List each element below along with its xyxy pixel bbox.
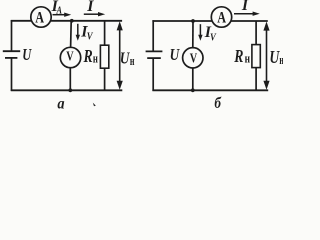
source U plate top (b) <box>146 50 163 52</box>
svg-text:V: V <box>190 52 197 67</box>
voltmeter V1 (a) <box>60 47 80 67</box>
svg-text:н: н <box>245 51 251 66</box>
label R_n (b) <box>234 46 251 66</box>
wire: resistor branch upper (a) <box>104 21 106 45</box>
wire: top rail (a) <box>11 20 122 22</box>
svg-text:R: R <box>234 46 244 66</box>
voltage arrow U_n double-headed (b) <box>263 22 269 90</box>
label I with arrow (a) <box>84 0 105 16</box>
wire: voltmeter branch upper (a) <box>70 21 73 48</box>
svg-text:A: A <box>217 10 226 27</box>
wire: voltmeter branch lower (a) <box>69 68 71 91</box>
wire: bottom rail (a) <box>11 89 123 91</box>
svg-text:н: н <box>279 52 283 67</box>
wire: voltmeter branch lower (b) <box>192 68 194 91</box>
node: junction bottom (b) <box>191 88 195 92</box>
svg-text:I: I <box>86 0 94 15</box>
wire: resistor branch upper (b) <box>255 21 257 45</box>
voltmeter V1 (b) <box>183 48 203 68</box>
resistor R_n (b) <box>252 45 260 68</box>
speck artifact <box>93 103 96 107</box>
label U_n (b) <box>269 47 284 67</box>
wire: left vertical lower (b) <box>152 58 154 91</box>
wire: left vertical upper (a) <box>11 20 13 51</box>
resistor R_n (a) <box>100 45 108 68</box>
ammeter A1 (b) <box>211 7 231 27</box>
wire: resistor branch lower (b) <box>255 68 257 91</box>
node: junction top (a) <box>70 19 74 23</box>
node: junction bottom (a) <box>68 88 72 92</box>
svg-text:R: R <box>83 46 93 66</box>
label I_V with arrow (a) <box>76 24 94 43</box>
svg-text:U: U <box>170 45 180 64</box>
source U plate bottom (b) <box>147 57 161 59</box>
node: junction top (b) <box>191 19 195 23</box>
svg-text:н: н <box>130 53 135 68</box>
label U_n (a) <box>120 48 135 68</box>
label I with arrow (b) <box>234 0 260 16</box>
svg-text:V: V <box>66 49 73 64</box>
label I_A with arrow (a) <box>51 0 72 17</box>
label R_n (a) <box>83 46 98 66</box>
svg-text:U: U <box>22 45 32 64</box>
svg-text:н: н <box>93 50 98 65</box>
label I_V with arrow (b) <box>198 24 217 44</box>
svg-text:U: U <box>120 48 130 67</box>
voltage arrow U_n double-headed (a) <box>117 21 123 90</box>
source U plate top (a) <box>3 50 20 52</box>
svg-text:I: I <box>241 0 249 14</box>
wire: left vertical upper (b) <box>152 20 154 51</box>
source U plate bottom (a) <box>5 57 17 59</box>
ammeter A1 (a) <box>31 7 51 27</box>
wire: left vertical lower (a) <box>11 58 13 91</box>
wire: top rail (b) <box>152 20 267 22</box>
svg-text:а: а <box>57 95 64 112</box>
wire: bottom rail (b) <box>152 89 268 91</box>
svg-text:A: A <box>35 9 44 26</box>
svg-text:б: б <box>214 95 222 112</box>
wire: voltmeter branch upper (b) <box>192 21 194 48</box>
wire: resistor branch lower (a) <box>104 68 106 90</box>
